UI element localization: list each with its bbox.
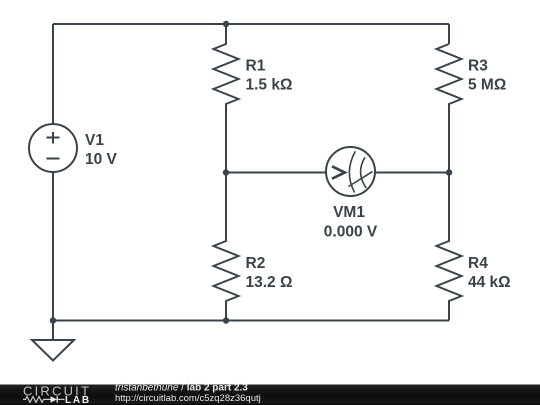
wire top rail: [53, 23, 449, 25]
svg-text:5 MΩ: 5 MΩ: [468, 77, 506, 94]
svg-text:R1: R1: [246, 58, 266, 75]
resistor R4: [437, 173, 462, 321]
label R2 value: [246, 255, 293, 291]
svg-text:R2: R2: [246, 255, 266, 272]
node junction mid R1: [223, 169, 229, 175]
svg-text:V1: V1: [85, 132, 104, 149]
resistor R3: [437, 44, 462, 173]
wire left rail lower: [52, 172, 54, 321]
label R3 value: [468, 58, 506, 94]
resistor R2: [214, 173, 239, 321]
label R1 value: [246, 58, 293, 94]
svg-text:R3: R3: [468, 58, 488, 75]
label V1 value: [85, 132, 118, 168]
wire middle right segment: [375, 172, 449, 174]
wire left rail upper: [52, 24, 54, 124]
svg-text:http://circuitlab.com/c5zq28z3: http://circuitlab.com/c5zq28z36qutj: [115, 393, 261, 404]
node junction top R1: [223, 21, 229, 27]
label R4 value: [468, 255, 511, 291]
voltage source V1: [29, 124, 77, 172]
ground: [32, 321, 74, 361]
svg-text:R4: R4: [468, 255, 488, 272]
svg-text:VM1: VM1: [333, 204, 365, 221]
node junction ground: [50, 317, 56, 323]
svg-text:44 kΩ: 44 kΩ: [468, 274, 511, 291]
svg-text:10 V: 10 V: [85, 151, 118, 168]
node junction mid R3: [446, 169, 452, 175]
wire bottom rail: [53, 320, 449, 322]
node junction bottom R2: [223, 317, 229, 323]
CircuitLab logo resistor-diode glyph: [23, 396, 65, 402]
resistor R1: [214, 24, 239, 173]
footer bar: [0, 385, 540, 405]
CircuitLab logo wordmark: [23, 384, 91, 405]
voltmeter VM1: [326, 147, 375, 196]
svg-text:LAB: LAB: [65, 395, 91, 405]
label VM1 value: [324, 204, 378, 241]
svg-text:0.000 V: 0.000 V: [324, 224, 378, 241]
wire middle left segment: [226, 172, 326, 174]
footer url line 2: [115, 393, 261, 404]
svg-text:13.2 Ω: 13.2 Ω: [246, 274, 293, 291]
footer credit line 1: [115, 383, 248, 394]
svg-text:1.5 kΩ: 1.5 kΩ: [246, 77, 293, 94]
svg-text:tristanbethune / lab 2 part 2.: tristanbethune / lab 2 part 2.3: [115, 383, 248, 394]
wire right rail top corner: [448, 24, 450, 44]
